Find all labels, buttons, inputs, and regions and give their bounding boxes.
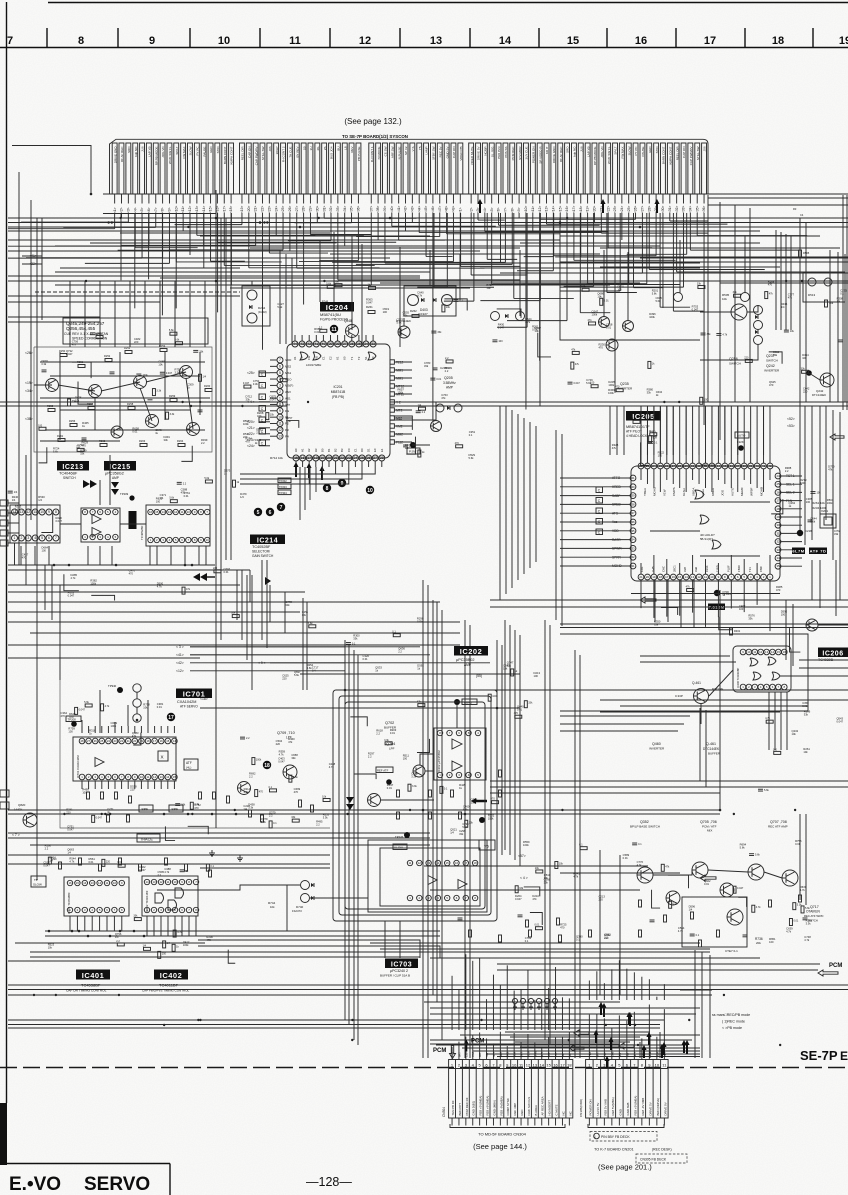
transistor Q205 xyxy=(431,421,442,432)
wire from CN002 pin xyxy=(162,194,164,204)
svg-text:15: 15 xyxy=(166,739,170,743)
wire vertical xyxy=(384,921,386,958)
IC202 pin 5 xyxy=(475,772,480,777)
wire drop xyxy=(500,213,502,263)
svg-text:32: 32 xyxy=(776,540,780,544)
svg-text:CAP ON: CAP ON xyxy=(247,147,251,158)
wire cluster A v xyxy=(199,352,201,415)
svg-text:ST2 MOR: ST2 MOR xyxy=(518,146,522,160)
IC205 top pin 29 xyxy=(683,463,689,469)
wire vertical xyxy=(215,190,217,690)
wire xyxy=(698,406,700,455)
svg-text:20: 20 xyxy=(646,575,650,579)
svg-text:BP/LP BASE SWITCH: BP/LP BASE SWITCH xyxy=(630,825,660,829)
svg-text:PAUSE: PAUSE xyxy=(641,147,645,157)
bus wire xyxy=(560,730,678,732)
bus wire xyxy=(640,661,736,663)
wire xyxy=(114,722,116,733)
svg-text:<2>: <2> xyxy=(120,207,124,213)
svg-text:0.1: 0.1 xyxy=(392,631,396,634)
svg-text:13: 13 xyxy=(533,1062,538,1067)
resistor C577 (cluster A) xyxy=(96,336,103,339)
connector CN002 pin 62 (KR IT) xyxy=(544,143,549,194)
label TP SLOW xyxy=(31,876,46,887)
svg-text:<36>: <36> xyxy=(702,206,706,213)
connector CN002 pin 20 (CAP ON) xyxy=(246,143,251,194)
wire from CN002 pin xyxy=(683,194,685,204)
gate U204b xyxy=(313,352,321,360)
capacitor C419 (IC204 right) xyxy=(430,377,435,379)
svg-text:DRIVE 9V: DRIVE 9V xyxy=(663,1102,667,1115)
svg-text:RE8 +9V(MBA): RE8 +9V(MBA) xyxy=(486,1096,490,1116)
svg-text:3.3k: 3.3k xyxy=(170,413,175,416)
wire xyxy=(190,654,430,656)
svg-text:0.01: 0.01 xyxy=(517,708,523,712)
svg-text:2.2: 2.2 xyxy=(376,732,380,736)
svg-text:5.6k: 5.6k xyxy=(169,329,174,332)
testpoint xyxy=(386,779,392,785)
svg-text:18: 18 xyxy=(659,575,663,579)
svg-text:5.6k: 5.6k xyxy=(397,321,403,325)
wire drop xyxy=(120,213,122,280)
wire xyxy=(140,781,142,789)
wire vertical xyxy=(236,570,238,620)
wire feed CN304 xyxy=(555,967,557,1030)
svg-text:FH CONT 1: FH CONT 1 xyxy=(370,146,374,162)
svg-text:18: 18 xyxy=(772,35,784,47)
wire feed CN305 xyxy=(648,979,650,1000)
svg-text:6RT: 6RT xyxy=(595,1052,599,1057)
svg-text:100: 100 xyxy=(403,757,408,761)
resistor R213 (IC701 bottom) xyxy=(92,815,95,822)
arrow into bus xyxy=(600,199,605,213)
wire drop into cluster A xyxy=(204,281,206,347)
IC label IC213 xyxy=(57,461,89,471)
svg-text:33: 33 xyxy=(371,342,375,346)
wire IC205 inner xyxy=(717,469,719,480)
svg-text:NI MODE: NI MODE xyxy=(377,147,381,160)
wire from CN002 pin xyxy=(607,194,609,204)
svg-text:REC 5V: REC 5V xyxy=(438,147,442,158)
IC205 bottom pin 11 xyxy=(703,574,709,580)
wire from CN002 pin xyxy=(357,194,359,204)
resistor C352 (IC701 bottom) xyxy=(190,802,193,809)
wire from CN002 pin xyxy=(303,194,305,204)
resistor R256 xyxy=(70,424,77,427)
svg-text:100k: 100k xyxy=(243,422,249,426)
wire vertical xyxy=(719,202,721,440)
connector CN304 pin 3 (PCM REC RF) xyxy=(468,1060,470,1119)
wire from CN002 pin xyxy=(593,194,595,204)
node ball 5 xyxy=(254,508,262,516)
svg-text:0.047: 0.047 xyxy=(139,868,146,872)
svg-text:CMPS: CMPS xyxy=(672,487,676,496)
svg-text:CAP FWD/RV: CAP FWD/RV xyxy=(254,147,258,166)
svg-text:0.1: 0.1 xyxy=(352,643,356,646)
svg-text:TP940: TP940 xyxy=(108,684,117,688)
wire xyxy=(94,397,96,430)
svg-text:<46>: <46> xyxy=(431,206,435,213)
wire drop xyxy=(619,213,621,291)
wire vertical xyxy=(780,692,782,750)
svg-text:19: 19 xyxy=(140,739,144,743)
IC206 top pin 14 xyxy=(770,649,776,655)
CN304 pin stub xyxy=(555,1118,557,1126)
wire stub IC205 xyxy=(560,521,605,523)
testpoint TP343 xyxy=(714,590,720,596)
capacitor C731 xyxy=(518,914,523,916)
svg-text:27: 27 xyxy=(373,456,377,460)
svg-text:100: 100 xyxy=(82,790,87,794)
svg-text:100: 100 xyxy=(773,748,778,751)
svg-text:5.6k: 5.6k xyxy=(307,666,313,670)
CN304 pin stub xyxy=(479,1118,481,1126)
svg-text:11: 11 xyxy=(167,880,170,884)
svg-text:<38>: <38> xyxy=(25,417,33,421)
bus wire xyxy=(490,792,720,794)
svg-text:GAIN SWITCH: GAIN SWITCH xyxy=(252,554,274,558)
wire vertical xyxy=(464,620,466,1058)
wire from CN002 pin xyxy=(504,194,506,204)
wire xyxy=(181,916,183,936)
wire from IC204 pin xyxy=(240,467,336,474)
svg-text:3.3k: 3.3k xyxy=(412,785,417,788)
svg-text:17: 17 xyxy=(560,1062,565,1067)
capacitor C733 xyxy=(743,934,748,936)
svg-text:100: 100 xyxy=(806,500,811,504)
svg-text:<20>: <20> xyxy=(593,206,597,213)
wire stub IC205 xyxy=(560,477,605,479)
junction xyxy=(63,813,65,815)
IC205 left pin (MOHD) xyxy=(630,563,636,569)
transistor Q714 xyxy=(666,891,680,905)
op-amp in IC701 xyxy=(95,758,104,767)
svg-text:STID: STID xyxy=(216,146,220,154)
wire xyxy=(114,781,116,789)
svg-text:ASV: ASV xyxy=(285,390,291,394)
IC205 bottom pin 10 xyxy=(709,574,715,580)
wire vertical xyxy=(344,640,346,1020)
svg-text:S0: S0 xyxy=(302,146,306,150)
svg-text:2.2: 2.2 xyxy=(398,650,402,654)
junction xyxy=(422,809,425,812)
svg-text:36T: 36T xyxy=(478,1052,482,1057)
connector CN002 pin 42 (SP X2) xyxy=(403,143,408,194)
wire feed CN304 xyxy=(492,975,494,1030)
bus wire xyxy=(8,984,848,986)
svg-text:10: 10 xyxy=(655,1062,660,1067)
svg-text:18: 18 xyxy=(567,1062,572,1067)
wire loop 2 xyxy=(339,696,491,915)
svg-text:MOHB: MOHB xyxy=(759,487,763,496)
resistor D281 (top right mid) xyxy=(589,322,596,325)
svg-text:7: 7 xyxy=(55,536,57,540)
wire from CN002 pin xyxy=(262,194,264,204)
bus wire xyxy=(460,1034,624,1036)
svg-text:PCM REC: PCM REC xyxy=(511,146,515,161)
wire to CN305 xyxy=(596,1014,598,1060)
junction xyxy=(723,994,725,996)
IC204 bottom pin 16 xyxy=(300,455,306,461)
wire (above IC205) xyxy=(641,442,649,465)
arrow right dark xyxy=(83,480,97,488)
svg-text:3.58MHz: 3.58MHz xyxy=(443,381,456,385)
svg-text:<18>: <18> xyxy=(579,206,583,213)
wire riser IC205 xyxy=(705,406,707,455)
wire from CN002 pin xyxy=(391,194,393,204)
svg-text:μPC35B02: μPC35B02 xyxy=(456,658,474,662)
wire vertical xyxy=(829,250,831,402)
connector CN002 pin 47 (REC 5V) xyxy=(437,143,442,194)
IC701 bottom pin 6 xyxy=(112,774,118,780)
resistor R751 xyxy=(299,800,302,807)
svg-text:40: 40 xyxy=(631,485,635,489)
connector CN305 cell line xyxy=(615,1060,617,1119)
IC204 top pin 42 xyxy=(306,341,312,347)
connector CN304 pin 10 (REF 3MP) xyxy=(517,1060,519,1119)
svg-text:C1: C1 xyxy=(321,356,325,360)
wire IC205 inner h xyxy=(700,555,760,557)
wire drop G xyxy=(170,546,172,565)
svg-text:0.01: 0.01 xyxy=(534,924,539,927)
svg-text:IC202 μPC35B02: IC202 μPC35B02 xyxy=(437,750,441,772)
bus wire xyxy=(8,644,460,646)
wire vertical xyxy=(574,650,576,1058)
bus wire xyxy=(8,960,120,962)
wire riser xyxy=(519,250,521,316)
IC703 top pin 11 xyxy=(407,860,412,865)
transistor Q242 xyxy=(820,373,834,387)
wire to CN304 xyxy=(458,1042,460,1060)
capacitor C sym xyxy=(259,417,266,423)
svg-text:D244: D244 xyxy=(258,306,266,310)
resistor R781 xyxy=(499,935,502,942)
resistor C798 (bottom right) xyxy=(669,901,672,908)
wire to CN305 xyxy=(648,1005,650,1060)
wire xyxy=(679,455,681,463)
svg-text:100k: 100k xyxy=(492,695,498,698)
svg-text:100k: 100k xyxy=(592,312,598,316)
svg-text:SELECTOR/: SELECTOR/ xyxy=(252,550,270,554)
svg-text:AMP: AMP xyxy=(112,476,119,480)
wire xyxy=(430,889,640,891)
resistor D383 (right mid) xyxy=(774,751,781,754)
connector CN002 pin 56 (POS SS) xyxy=(503,143,508,194)
svg-text:4.7k: 4.7k xyxy=(722,334,727,337)
CN305 pin stub xyxy=(611,1118,613,1126)
IC205 bottom pin 14 xyxy=(683,574,689,580)
svg-text:1/4: 1/4 xyxy=(450,831,454,835)
svg-text:T6P: T6P xyxy=(554,1052,558,1057)
svg-text:27: 27 xyxy=(87,739,91,743)
svg-text:(IC202): (IC202) xyxy=(258,310,267,314)
resistor Q437 (IC701 top) xyxy=(85,704,92,707)
wire to CN304 xyxy=(561,1036,563,1059)
junction xyxy=(197,1019,199,1021)
wire IC205 inner xyxy=(640,469,642,480)
svg-text:39: 39 xyxy=(329,342,333,346)
svg-text:220: 220 xyxy=(604,936,609,940)
capacitor C734 xyxy=(803,917,808,919)
svg-text:DRIVE GND: DRIVE GND xyxy=(113,146,117,164)
wire from CN002 pin xyxy=(546,194,548,204)
wire riser xyxy=(333,232,335,302)
svg-text:10: 10 xyxy=(187,510,191,514)
wire xyxy=(160,781,162,789)
svg-text:<32>: <32> xyxy=(329,206,333,213)
svg-text:PB2: PB2 xyxy=(588,1052,592,1057)
svg-text:10k: 10k xyxy=(722,297,727,301)
capacitor R333 (IC204 right) xyxy=(416,410,421,412)
svg-text:<19>: <19> xyxy=(25,381,33,385)
IC204 right pin (T212) xyxy=(390,360,394,364)
svg-text:33k: 33k xyxy=(544,881,549,885)
wire drop xyxy=(526,213,528,327)
wire from CN002 pin xyxy=(275,194,277,204)
svg-text:21: 21 xyxy=(639,575,643,579)
IC205 top pin 38 xyxy=(741,463,747,469)
wire vertical xyxy=(266,560,268,648)
IC205 left pin (SRED) xyxy=(630,502,636,508)
IC204 right pin (MM2) xyxy=(390,432,394,436)
wire from CN002 pin xyxy=(168,194,170,204)
svg-text:<28>: <28> xyxy=(302,206,306,213)
wire riser IC205 xyxy=(659,406,661,455)
svg-text:AUTO: AUTO xyxy=(730,487,734,496)
wire IC205 inner xyxy=(750,469,752,484)
svg-text:Q352: Q352 xyxy=(640,820,649,824)
transistor Q251 xyxy=(180,366,193,379)
junction xyxy=(566,217,568,219)
svg-text:TC4052BF: TC4052BF xyxy=(252,545,271,549)
capacitor C sym xyxy=(596,519,603,525)
connector CN002 pin 23 (J06) xyxy=(267,143,272,194)
IC202 pin 4 xyxy=(466,772,471,777)
resistor R765 xyxy=(717,930,720,937)
svg-text:GND (MBA): GND (MBA) xyxy=(492,1100,496,1115)
wire riser IC205 xyxy=(692,406,694,455)
svg-text:470: 470 xyxy=(61,714,66,718)
svg-text:T2: T2 xyxy=(357,356,361,360)
IC206 top pin 16 xyxy=(782,649,788,655)
svg-text:R234 100k: R234 100k xyxy=(812,506,827,510)
svg-text:2.2: 2.2 xyxy=(201,441,205,445)
wire vertical xyxy=(719,590,721,810)
capacitor C sym xyxy=(259,440,266,446)
svg-text:37: 37 xyxy=(343,342,347,346)
svg-text:100: 100 xyxy=(739,607,744,611)
svg-text:100k: 100k xyxy=(800,481,806,485)
svg-text:36M: 36M xyxy=(655,1052,659,1057)
svg-text:MS(F): MS(F) xyxy=(285,384,293,388)
wire feed CN305 xyxy=(633,972,635,1000)
svg-text:10: 10 xyxy=(710,575,714,579)
junction xyxy=(464,813,467,816)
junction xyxy=(634,1024,636,1026)
svg-text:14: 14 xyxy=(771,650,775,654)
IC204 bottom pin 25 xyxy=(359,455,365,461)
svg-text:<16>: <16> xyxy=(565,206,569,213)
svg-text:10: 10 xyxy=(140,775,144,779)
svg-text:0.047: 0.047 xyxy=(67,828,74,832)
resistor R2511 xyxy=(58,439,65,442)
svg-text:0.047: 0.047 xyxy=(737,887,744,890)
connector CN304 pin 7 (GND (MBA)) xyxy=(496,1060,498,1119)
IC402 bottom pin 2 xyxy=(151,907,156,912)
IC703 top pin 13 xyxy=(426,860,431,865)
wire to CN304 xyxy=(465,1037,467,1060)
wire riser IC205 xyxy=(769,406,771,455)
wire vertical xyxy=(555,430,557,620)
bus wire xyxy=(8,321,100,323)
IC204 bottom pin 22 xyxy=(339,455,345,461)
svg-text:<10>: <10> xyxy=(174,206,178,213)
bus wire xyxy=(8,994,712,996)
transistor Q704 xyxy=(368,794,381,807)
svg-text:4.7k: 4.7k xyxy=(573,875,579,879)
connector CN002 pin 50 (VIDEO PB) xyxy=(458,143,463,194)
wire stub IC701 xyxy=(94,726,96,733)
IC703 top pin 18 xyxy=(472,860,477,865)
wire xyxy=(69,916,71,931)
wire riser IC205 xyxy=(743,406,745,455)
wire xyxy=(390,402,436,420)
bus wire xyxy=(30,951,575,953)
IC202 pin 7 xyxy=(447,730,452,735)
wire frame E2 xyxy=(560,218,700,340)
IC205 bottom pin 3 xyxy=(754,574,760,580)
resistor R744 xyxy=(199,792,202,799)
wire from IC204 pin xyxy=(240,467,309,484)
resistor R725 xyxy=(459,812,462,819)
wire from CN002 pin xyxy=(587,194,589,204)
bus wire xyxy=(8,1024,660,1026)
svg-text:0.1: 0.1 xyxy=(654,442,658,445)
resistor C510 (bottom mid) xyxy=(555,861,558,868)
svg-text:0.1: 0.1 xyxy=(525,939,529,943)
wire vertical xyxy=(785,234,787,330)
wire (IC204 left) xyxy=(288,421,299,428)
wire vertical xyxy=(819,406,821,514)
svg-text:SP/LT: SP/LT xyxy=(614,146,618,154)
svg-text:6L7M: 6L7M xyxy=(792,548,804,553)
wire from CN002 pin xyxy=(525,194,527,204)
CN305 pin stub xyxy=(588,1118,590,1126)
IC701 top pin 16 xyxy=(158,738,164,744)
svg-text:IC402: IC402 xyxy=(160,971,183,980)
wire xyxy=(698,455,700,463)
svg-text:1/4: 1/4 xyxy=(312,668,316,672)
wire from CN002 pin xyxy=(439,194,441,204)
resistor D552 (top right) xyxy=(745,359,752,362)
connector CN002 pin 18 (KMPH CONT) xyxy=(229,143,234,194)
junction xyxy=(136,719,139,722)
svg-text:JOG VD: JOG VD xyxy=(600,146,604,158)
svg-text:SL JOG: SL JOG xyxy=(490,146,494,157)
connector CN002 pin 58 (ST2 MOR) xyxy=(517,143,522,194)
connector CN002 pin 22 (STILL SW) xyxy=(260,143,265,194)
svg-text:3.3k: 3.3k xyxy=(253,382,259,386)
IC401 bottom pin 5 xyxy=(97,907,102,912)
IC204 left pin 4 (RSO) xyxy=(277,376,283,382)
connector CN002 pin 64 (RF AF REC) xyxy=(558,143,563,194)
svg-text:0.01: 0.01 xyxy=(88,860,94,864)
svg-text:21: 21 xyxy=(334,456,338,460)
svg-text:13: 13 xyxy=(278,434,282,438)
wire from CN002 pin xyxy=(635,194,637,204)
resistor R261 xyxy=(368,311,375,314)
svg-text:0.01: 0.01 xyxy=(390,731,396,735)
